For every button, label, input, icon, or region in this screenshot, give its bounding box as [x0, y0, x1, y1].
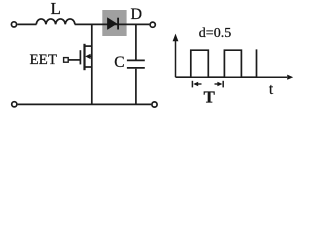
waveform vertical axis	[175, 39, 177, 77]
svg-text:d=0.5: d=0.5	[199, 26, 231, 41]
wire top rail left segment	[17, 23, 36, 25]
terminal top-right	[150, 22, 155, 27]
terminal bottom-right	[152, 102, 157, 107]
wire top rail right of inductor to right terminal	[75, 23, 150, 25]
highlight box around diode	[102, 10, 126, 36]
waveform horizontal axis	[176, 76, 288, 78]
wire from top rail junction down through MOSFET drain/source to bottom rail junction	[91, 24, 93, 104]
svg-text:L: L	[51, 0, 61, 18]
arrow stub	[89, 55, 92, 57]
period T left arrow	[196, 83, 202, 85]
diode D anode triangle	[107, 18, 116, 30]
svg-text:EET: EET	[30, 52, 58, 68]
wire bottom rail	[18, 103, 152, 105]
gate drive pulse waveform (duty 0.5)	[176, 49, 257, 77]
gate terminal square	[64, 58, 69, 63]
terminal top-left	[11, 22, 16, 27]
arrowhead on MOSFET pointing into channel	[85, 54, 90, 59]
period T marker left tick	[191, 81, 193, 88]
diode D cathode bar	[117, 18, 119, 30]
source stub	[85, 66, 92, 68]
capacitor C top plate	[127, 59, 145, 61]
channel bar	[83, 44, 85, 70]
svg-text:C: C	[114, 54, 124, 71]
period T right arrow	[215, 83, 220, 85]
period T marker right tick	[222, 81, 224, 88]
wire from top rail junction to capacitor C top plate	[135, 24, 137, 59]
svg-text:D: D	[131, 6, 143, 23]
inductor L	[36, 19, 75, 24]
capacitor C bottom plate	[127, 67, 145, 69]
svg-text:T: T	[204, 88, 216, 107]
svg-text:t: t	[269, 81, 274, 98]
gate wire	[68, 59, 80, 61]
transistor EET (n-channel MOSFET symbol)	[64, 44, 92, 70]
wire from capacitor C bottom plate to bottom rail junction	[135, 69, 137, 105]
gate bar	[79, 50, 81, 64]
terminal bottom-left	[12, 102, 17, 107]
drain stub	[85, 45, 92, 47]
